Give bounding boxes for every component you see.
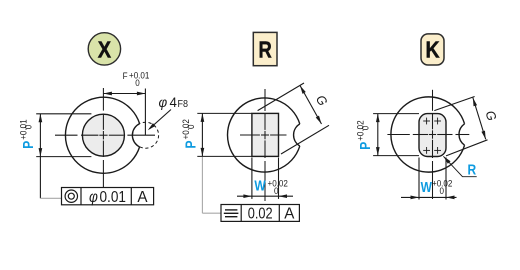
svg-text:P: P: [357, 142, 374, 150]
svg-text:R: R: [259, 37, 272, 62]
svg-text:0: 0: [360, 126, 371, 131]
svg-text:W: W: [421, 179, 432, 196]
svg-text:φ: φ: [89, 189, 98, 206]
svg-text:P: P: [20, 141, 37, 149]
svg-text:0: 0: [23, 125, 34, 130]
svg-text:A: A: [137, 188, 148, 205]
svg-text:0: 0: [186, 124, 197, 129]
svg-text:0.01: 0.01: [100, 189, 126, 206]
svg-text:0: 0: [274, 185, 279, 196]
svg-text:F: F: [123, 70, 128, 81]
svg-text:0: 0: [440, 185, 445, 196]
svg-text:F8: F8: [178, 99, 188, 111]
svg-text:0.02: 0.02: [248, 205, 273, 223]
svg-text:K: K: [425, 37, 440, 63]
svg-text:0: 0: [135, 78, 140, 89]
svg-text:φ: φ: [159, 95, 168, 110]
svg-text:R: R: [468, 161, 477, 178]
svg-text:X: X: [98, 36, 112, 63]
svg-text:W: W: [254, 177, 265, 194]
svg-text:4: 4: [170, 95, 178, 110]
svg-text:P: P: [182, 140, 199, 148]
svg-text:A: A: [284, 205, 295, 222]
